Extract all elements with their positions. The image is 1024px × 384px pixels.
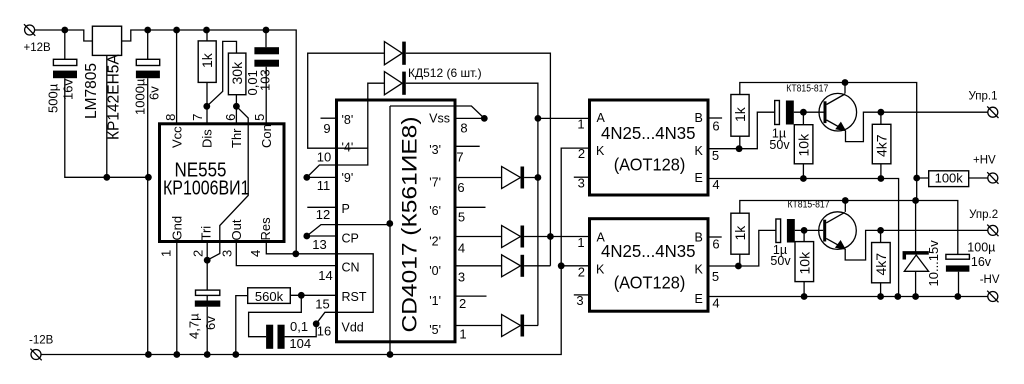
svg-text:50v: 50v: [770, 254, 791, 268]
svg-text:КР1006ВИ1: КР1006ВИ1: [163, 178, 250, 200]
svg-text:'6': '6': [429, 204, 441, 218]
svg-text:30k: 30k: [229, 61, 245, 85]
svg-text:16v: 16v: [971, 255, 992, 269]
svg-text:0,1: 0,1: [290, 319, 308, 334]
svg-text:B: B: [695, 111, 703, 125]
svg-text:Gnd: Gnd: [169, 216, 184, 241]
svg-text:16v: 16v: [61, 79, 76, 100]
svg-text:RST: RST: [342, 290, 367, 304]
svg-text:КД512 (6 шт.): КД512 (6 шт.): [408, 66, 482, 80]
svg-text:'9': '9': [342, 171, 354, 185]
svg-text:8: 8: [163, 114, 178, 121]
svg-text:12: 12: [316, 207, 330, 222]
svg-text:13: 13: [312, 237, 326, 252]
svg-text:6v: 6v: [147, 86, 162, 100]
svg-text:7: 7: [190, 114, 205, 121]
svg-text:1: 1: [159, 250, 174, 257]
svg-text:6: 6: [457, 180, 464, 195]
svg-text:'8': '8': [342, 113, 354, 127]
svg-text:560k: 560k: [255, 289, 284, 304]
svg-text:3: 3: [576, 293, 583, 308]
svg-text:100k: 100k: [935, 171, 964, 186]
svg-text:1: 1: [459, 327, 466, 342]
svg-text:1: 1: [577, 235, 584, 250]
svg-text:10: 10: [317, 150, 331, 165]
svg-text:Упр.2: Упр.2: [969, 209, 998, 221]
svg-text:'0': '0': [429, 264, 441, 278]
svg-text:K: K: [695, 263, 704, 277]
svg-text:4: 4: [712, 296, 719, 311]
svg-text:K: K: [596, 144, 605, 158]
svg-text:2: 2: [578, 265, 585, 280]
svg-text:6: 6: [712, 119, 719, 134]
svg-text:2: 2: [190, 250, 205, 257]
svg-text:КТ815-817: КТ815-817: [788, 200, 830, 211]
svg-text:K: K: [695, 144, 704, 158]
svg-text:Out: Out: [229, 219, 244, 240]
svg-text:Con: Con: [259, 124, 274, 148]
svg-text:+HV: +HV: [973, 155, 996, 167]
svg-text:4k7: 4k7: [874, 134, 890, 157]
svg-text:'5': '5': [429, 323, 441, 337]
svg-text:10k: 10k: [796, 133, 812, 157]
svg-text:'7': '7': [429, 176, 441, 190]
svg-text:6v: 6v: [203, 316, 218, 330]
svg-text:КТ815-817: КТ815-817: [786, 84, 828, 95]
svg-text:Упр.1: Упр.1: [969, 91, 998, 103]
svg-text:(АОТ128): (АОТ128): [614, 155, 686, 175]
svg-text:10k: 10k: [796, 251, 812, 275]
svg-text:7: 7: [456, 150, 463, 165]
svg-text:Vcc: Vcc: [170, 126, 185, 148]
svg-text:5: 5: [712, 148, 719, 163]
svg-text:(АОТ128): (АОТ128): [614, 273, 686, 293]
svg-text:B: B: [695, 231, 703, 245]
svg-text:3: 3: [220, 250, 235, 257]
svg-text:Res: Res: [258, 217, 273, 241]
svg-text:4N25...4N35: 4N25...4N35: [601, 241, 696, 261]
svg-text:CN: CN: [342, 261, 360, 275]
svg-text:4: 4: [712, 177, 719, 192]
svg-text:'3': '3': [429, 143, 441, 157]
svg-text:11: 11: [317, 178, 331, 193]
svg-text:'1': '1': [429, 294, 441, 308]
svg-text:1k: 1k: [732, 225, 748, 241]
svg-text:1000µ: 1000µ: [133, 78, 148, 115]
svg-text:15: 15: [315, 297, 329, 312]
svg-text:4N25...4N35: 4N25...4N35: [601, 123, 696, 143]
svg-text:E: E: [695, 292, 703, 306]
svg-text:4: 4: [248, 250, 263, 257]
svg-text:+12В: +12В: [24, 42, 52, 54]
svg-text:5: 5: [712, 269, 719, 284]
svg-text:9: 9: [323, 121, 330, 136]
svg-text:-HV: -HV: [980, 274, 1000, 286]
svg-text:E: E: [695, 171, 703, 185]
svg-text:Thr: Thr: [229, 128, 244, 148]
svg-text:K: K: [596, 263, 605, 277]
svg-text:'4': '4': [342, 141, 354, 155]
svg-text:CP: CP: [342, 232, 359, 246]
svg-text:CD4017 (К561ИЕ8): CD4017 (К561ИЕ8): [398, 117, 422, 333]
svg-text:-12В: -12В: [29, 335, 54, 347]
svg-text:4: 4: [458, 241, 465, 256]
svg-text:LM7805: LM7805: [83, 63, 100, 119]
svg-text:'2': '2': [429, 235, 441, 249]
svg-text:500µ: 500µ: [46, 83, 61, 113]
svg-text:1k: 1k: [732, 106, 748, 122]
svg-text:103: 103: [258, 69, 273, 91]
svg-text:8: 8: [460, 121, 467, 136]
svg-text:КР142ЕН5А: КР142ЕН5А: [106, 54, 123, 140]
svg-text:3: 3: [578, 176, 585, 191]
svg-text:Vdd: Vdd: [342, 321, 364, 335]
svg-text:P: P: [342, 202, 350, 216]
svg-text:2: 2: [578, 146, 585, 161]
svg-text:Tri: Tri: [199, 226, 214, 241]
svg-text:2: 2: [459, 296, 466, 311]
svg-text:14: 14: [318, 268, 332, 283]
svg-text:5: 5: [458, 210, 465, 225]
svg-text:104: 104: [289, 336, 311, 351]
svg-text:1k: 1k: [199, 52, 215, 68]
svg-text:1: 1: [577, 117, 584, 132]
svg-text:Vss: Vss: [429, 112, 450, 126]
svg-text:10...15v: 10...15v: [926, 240, 941, 287]
svg-text:4,7µ: 4,7µ: [186, 313, 201, 339]
svg-text:Dis: Dis: [200, 129, 215, 148]
svg-text:6: 6: [223, 114, 238, 121]
svg-text:6: 6: [712, 237, 719, 252]
svg-text:50v: 50v: [769, 138, 790, 152]
svg-text:4k7: 4k7: [873, 253, 889, 276]
svg-text:100µ: 100µ: [967, 241, 995, 255]
svg-text:3: 3: [458, 270, 465, 285]
svg-text:5: 5: [252, 114, 267, 121]
